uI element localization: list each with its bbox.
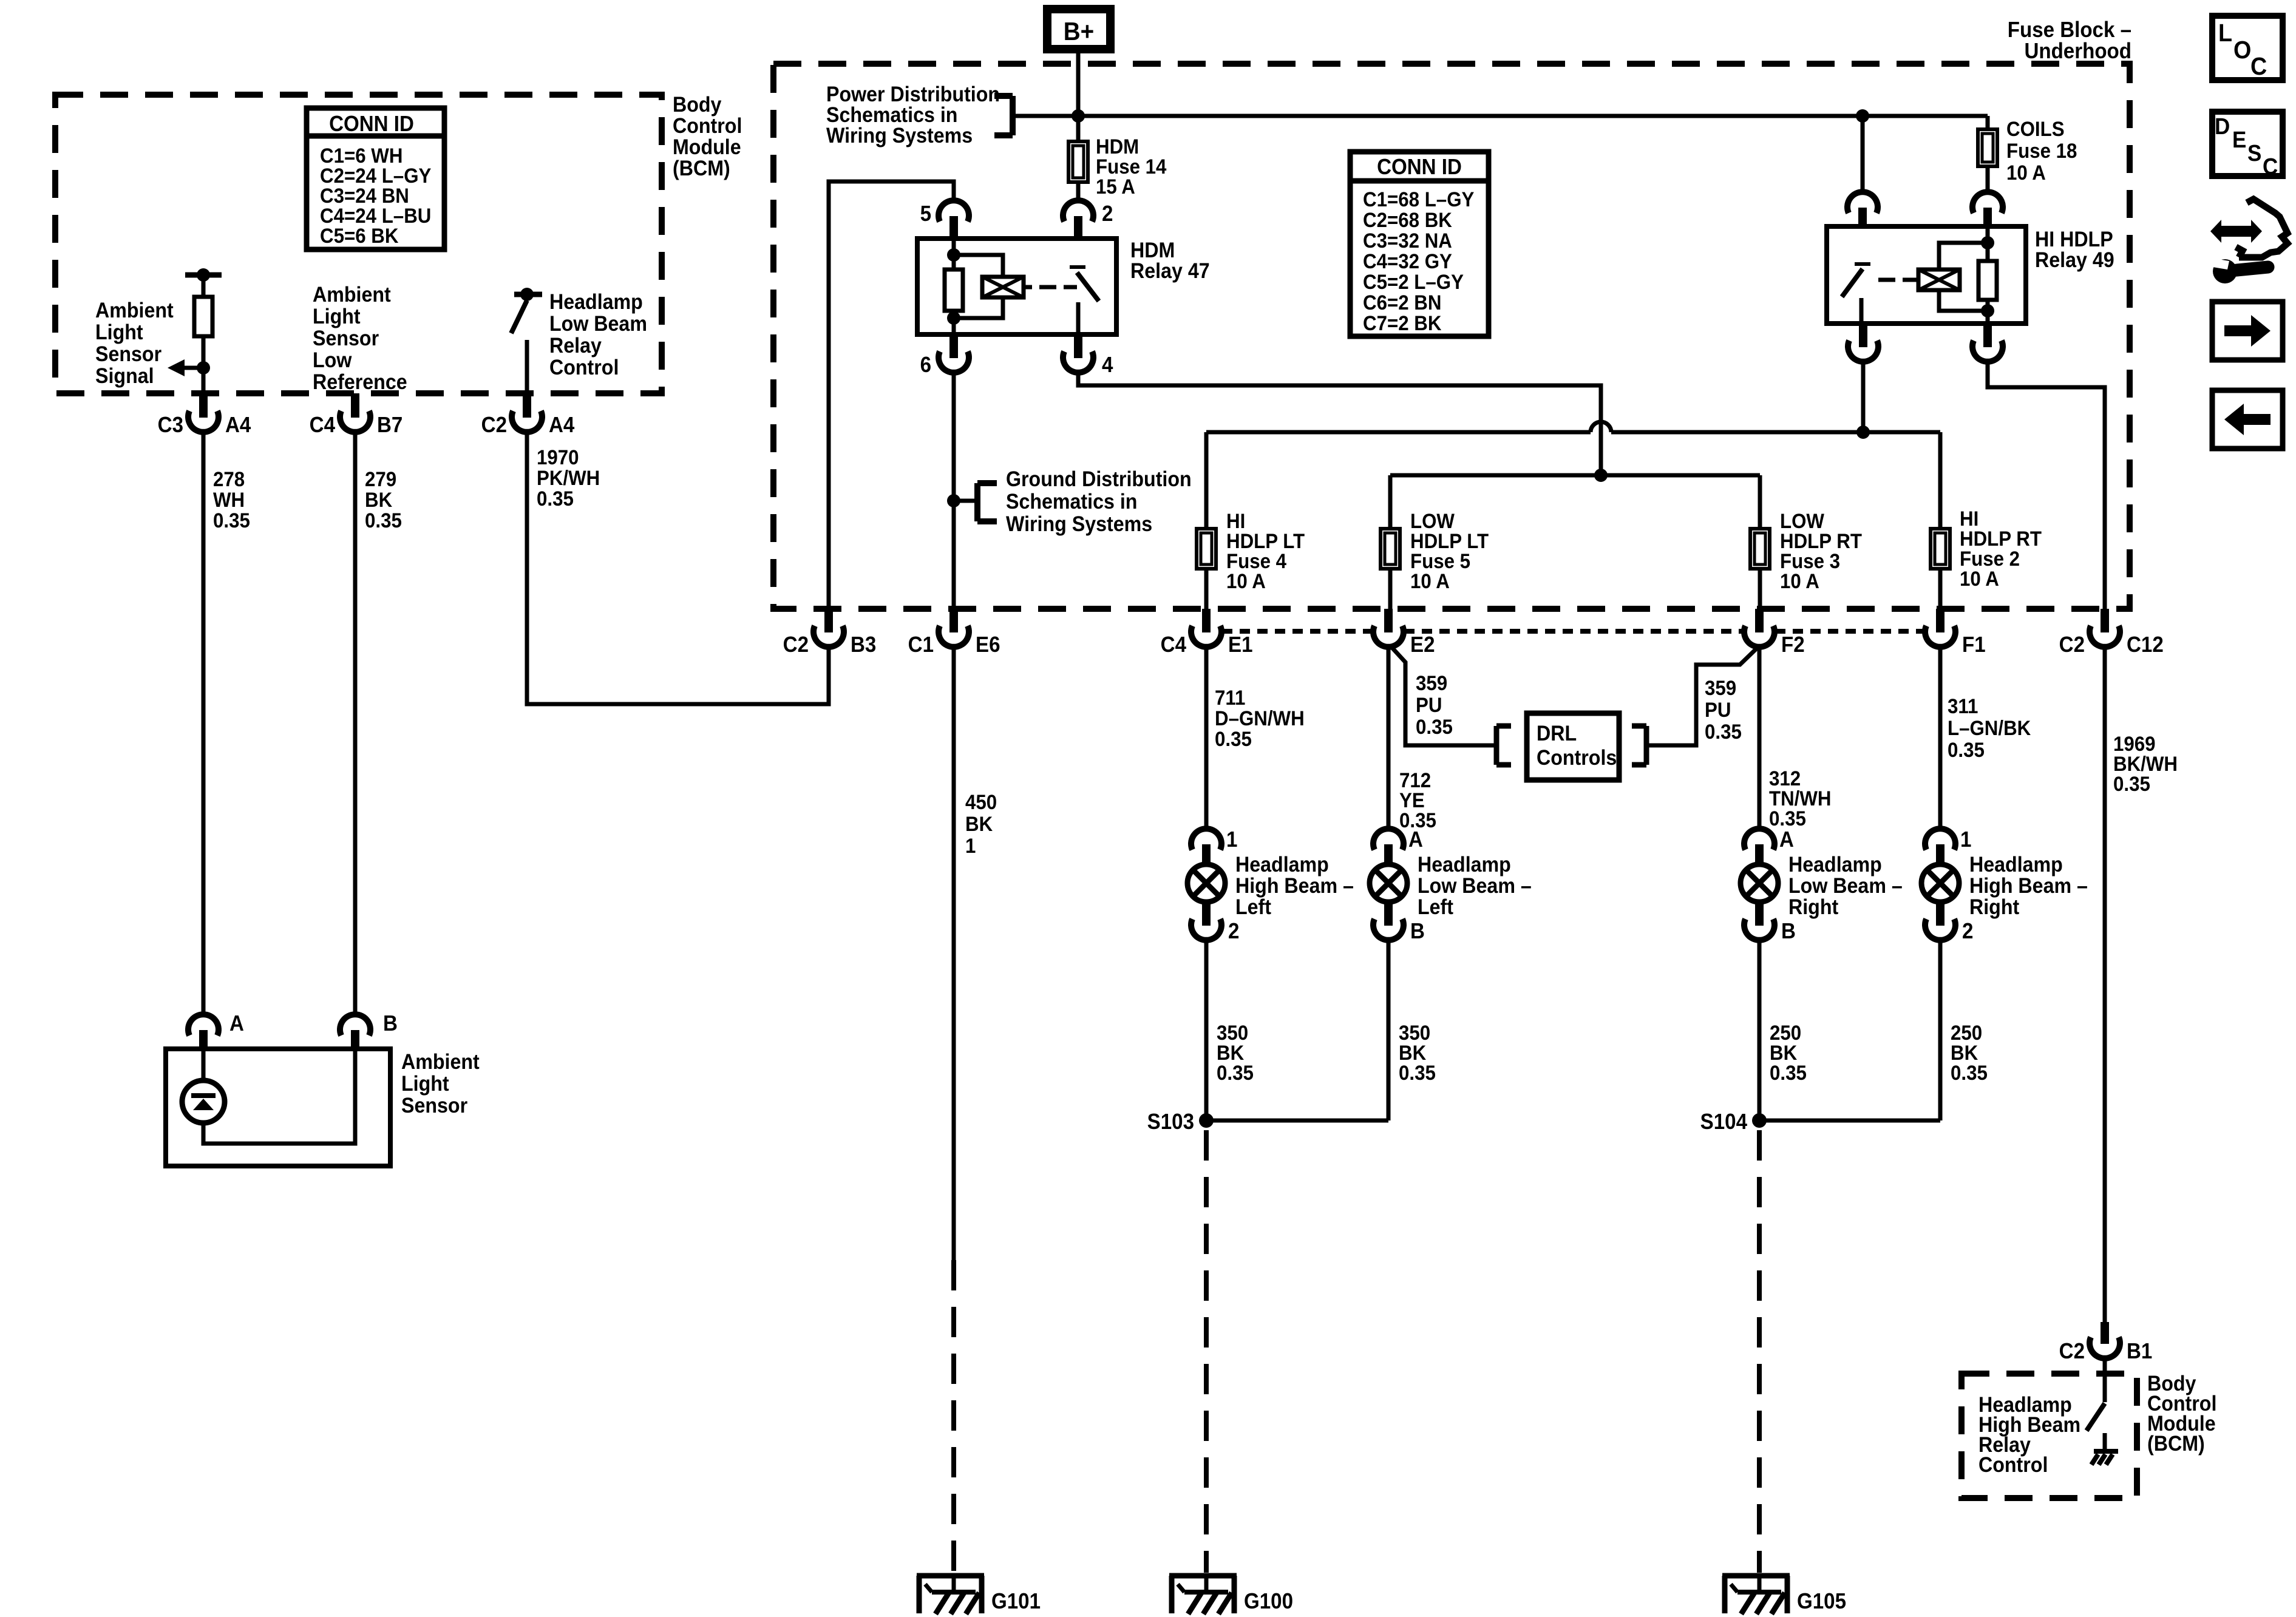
svg-text:PU: PU — [1705, 698, 1731, 722]
svg-text:0.35: 0.35 — [1399, 1061, 1436, 1085]
svg-text:Low Beam: Low Beam — [549, 313, 647, 336]
svg-text:0.35: 0.35 — [1217, 1061, 1254, 1085]
svg-text:Control: Control — [673, 115, 742, 138]
svg-text:C5=6 BK: C5=6 BK — [320, 224, 399, 248]
svg-text:COILS: COILS — [2006, 117, 2065, 141]
svg-text:0.35: 0.35 — [1948, 738, 1985, 762]
svg-text:C2: C2 — [2059, 1340, 2085, 1364]
svg-text:Reference: Reference — [313, 371, 407, 395]
svg-text:Sensor: Sensor — [313, 327, 379, 351]
svg-text:Sensor: Sensor — [95, 343, 161, 367]
svg-text:B: B — [1410, 920, 1425, 944]
svg-text:C2: C2 — [783, 633, 809, 657]
svg-text:C1=68 L–GY: C1=68 L–GY — [1363, 188, 1475, 211]
svg-text:B: B — [383, 1012, 398, 1036]
svg-text:(BCM): (BCM) — [673, 157, 730, 181]
svg-text:0.35: 0.35 — [365, 509, 402, 532]
svg-text:0.35: 0.35 — [1215, 727, 1252, 751]
svg-text:L: L — [2218, 19, 2232, 47]
svg-text:0.35: 0.35 — [537, 487, 574, 510]
svg-text:2: 2 — [1102, 202, 1113, 226]
svg-text:E: E — [2232, 127, 2246, 153]
svg-text:0.35: 0.35 — [2113, 772, 2150, 796]
svg-text:2: 2 — [1962, 920, 1973, 944]
svg-text:279: 279 — [365, 467, 396, 491]
svg-text:10 A: 10 A — [1410, 569, 1450, 593]
svg-text:Light: Light — [401, 1073, 449, 1096]
svg-text:E1: E1 — [1228, 633, 1252, 657]
svg-text:1: 1 — [965, 834, 976, 858]
svg-text:WH: WH — [213, 488, 245, 512]
svg-text:BK: BK — [365, 488, 393, 512]
svg-text:CONN ID: CONN ID — [329, 112, 414, 137]
svg-text:High Beam –: High Beam – — [1969, 875, 2088, 898]
svg-text:10 A: 10 A — [1960, 567, 1999, 591]
svg-text:Headlamp: Headlamp — [1969, 853, 2063, 877]
svg-text:Left: Left — [1235, 896, 1271, 920]
svg-text:A4: A4 — [225, 413, 251, 438]
svg-text:711: 711 — [1215, 686, 1245, 710]
svg-text:0.35: 0.35 — [1770, 1061, 1807, 1085]
svg-text:HI HDLP: HI HDLP — [2035, 228, 2113, 252]
svg-text:C4: C4 — [1161, 633, 1187, 657]
svg-text:Relay 47: Relay 47 — [1130, 260, 1210, 283]
svg-text:C4=32 GY: C4=32 GY — [1363, 249, 1452, 273]
svg-text:B+: B+ — [1064, 16, 1094, 46]
svg-text:Controls: Controls — [1537, 747, 1617, 770]
svg-text:Low Beam –: Low Beam – — [1418, 875, 1532, 898]
svg-text:Right: Right — [1788, 896, 1838, 920]
svg-text:Headlamp: Headlamp — [549, 291, 643, 314]
svg-text:C4: C4 — [310, 413, 336, 438]
svg-text:L–GN/BK: L–GN/BK — [1948, 716, 2031, 740]
svg-text:O: O — [2233, 36, 2251, 64]
svg-text:D–GN/WH: D–GN/WH — [1215, 707, 1305, 730]
svg-text:C2: C2 — [481, 413, 507, 438]
svg-text:278: 278 — [213, 467, 245, 491]
svg-text:Light: Light — [313, 305, 361, 329]
svg-text:S: S — [2247, 140, 2261, 166]
svg-text:G105: G105 — [1797, 1590, 1846, 1614]
svg-text:F2: F2 — [1781, 633, 1805, 657]
svg-text:G100: G100 — [1244, 1590, 1293, 1614]
svg-text:A: A — [1408, 828, 1423, 852]
svg-text:15 A: 15 A — [1096, 175, 1135, 198]
svg-text:0.35: 0.35 — [1705, 720, 1742, 744]
svg-text:Right: Right — [1969, 896, 2019, 920]
svg-text:Headlamp: Headlamp — [1418, 853, 1511, 877]
svg-text:Headlamp: Headlamp — [1788, 853, 1882, 877]
svg-text:10 A: 10 A — [2006, 161, 2046, 185]
svg-text:C3: C3 — [158, 413, 183, 438]
svg-text:Headlamp: Headlamp — [1235, 853, 1329, 877]
svg-text:A: A — [1779, 828, 1794, 852]
svg-text:PU: PU — [1416, 693, 1442, 717]
svg-text:Module: Module — [673, 136, 741, 160]
svg-text:359: 359 — [1705, 676, 1736, 700]
svg-text:Wiring Systems: Wiring Systems — [826, 124, 973, 148]
svg-text:C: C — [2250, 53, 2267, 81]
svg-text:High Beam –: High Beam – — [1235, 875, 1354, 898]
svg-text:Schematics in: Schematics in — [826, 104, 957, 127]
svg-text:Low Beam –: Low Beam – — [1788, 875, 1903, 898]
svg-text:Relay 49: Relay 49 — [2035, 249, 2114, 273]
svg-text:Control: Control — [549, 356, 619, 380]
svg-text:Light: Light — [95, 321, 143, 345]
svg-text:Low: Low — [313, 349, 352, 373]
svg-text:F1: F1 — [1962, 633, 1986, 657]
svg-text:PK/WH: PK/WH — [537, 466, 600, 490]
svg-text:Power Distribution: Power Distribution — [826, 83, 1000, 107]
svg-text:Ground Distribution: Ground Distribution — [1006, 468, 1192, 492]
svg-text:6: 6 — [920, 353, 931, 378]
svg-text:Schematics in: Schematics in — [1006, 490, 1137, 514]
svg-text:Ambient: Ambient — [313, 283, 391, 307]
svg-text:S103: S103 — [1147, 1110, 1194, 1134]
svg-text:1: 1 — [1226, 828, 1237, 852]
svg-text:359: 359 — [1416, 671, 1447, 695]
svg-text:D: D — [2215, 114, 2230, 140]
svg-text:C12: C12 — [2127, 633, 2164, 657]
svg-text:E2: E2 — [1410, 633, 1435, 657]
svg-text:1: 1 — [1960, 828, 1971, 852]
svg-text:C: C — [2263, 154, 2278, 180]
svg-text:4: 4 — [1102, 353, 1113, 378]
svg-text:0.35: 0.35 — [1769, 807, 1806, 830]
svg-text:S104: S104 — [1700, 1110, 1748, 1134]
svg-text:C3=32 NA: C3=32 NA — [1363, 229, 1452, 253]
svg-text:(BCM): (BCM) — [2147, 1432, 2205, 1456]
svg-text:A4: A4 — [549, 413, 575, 438]
svg-text:Underhood: Underhood — [2024, 39, 2131, 64]
svg-text:Relay: Relay — [549, 334, 602, 358]
svg-text:Control: Control — [1978, 1454, 2048, 1477]
svg-text:Ambient: Ambient — [95, 299, 174, 323]
svg-text:10 A: 10 A — [1226, 569, 1266, 593]
svg-text:C2: C2 — [2059, 633, 2085, 657]
svg-text:C5=2 L–GY: C5=2 L–GY — [1363, 270, 1464, 294]
svg-text:Fuse Block –: Fuse Block – — [2008, 18, 2131, 42]
svg-text:C6=2 BN: C6=2 BN — [1363, 291, 1441, 314]
svg-text:A: A — [229, 1012, 244, 1036]
svg-text:HDM: HDM — [1130, 239, 1175, 263]
svg-text:B: B — [1781, 920, 1796, 944]
svg-text:450: 450 — [965, 790, 997, 814]
svg-text:0.35: 0.35 — [1951, 1061, 1988, 1085]
svg-text:C7=2 BK: C7=2 BK — [1363, 311, 1442, 335]
svg-text:G101: G101 — [991, 1590, 1041, 1614]
svg-text:Signal: Signal — [95, 365, 154, 388]
svg-text:0.35: 0.35 — [213, 509, 250, 532]
svg-text:B3: B3 — [851, 633, 876, 657]
svg-text:C2=68 BK: C2=68 BK — [1363, 208, 1452, 232]
svg-text:B7: B7 — [377, 413, 402, 438]
svg-text:B1: B1 — [2127, 1340, 2152, 1364]
svg-text:1970: 1970 — [537, 446, 579, 469]
svg-text:2: 2 — [1228, 920, 1239, 944]
svg-text:10 A: 10 A — [1780, 569, 1819, 593]
svg-text:Ambient: Ambient — [401, 1051, 480, 1074]
svg-text:CONN ID: CONN ID — [1377, 155, 1462, 180]
svg-text:C1: C1 — [908, 633, 934, 657]
svg-text:Sensor: Sensor — [401, 1094, 467, 1118]
svg-text:Wiring Systems: Wiring Systems — [1006, 513, 1152, 537]
svg-text:BK: BK — [965, 812, 993, 836]
svg-text:Fuse 18: Fuse 18 — [2006, 139, 2077, 163]
svg-text:5: 5 — [920, 202, 931, 226]
svg-text:Body: Body — [673, 93, 722, 117]
svg-text:0.35: 0.35 — [1416, 715, 1453, 739]
svg-text:E6: E6 — [976, 633, 1000, 657]
svg-text:Left: Left — [1418, 896, 1453, 920]
svg-text:311: 311 — [1948, 694, 1978, 718]
svg-text:DRL: DRL — [1537, 722, 1577, 746]
